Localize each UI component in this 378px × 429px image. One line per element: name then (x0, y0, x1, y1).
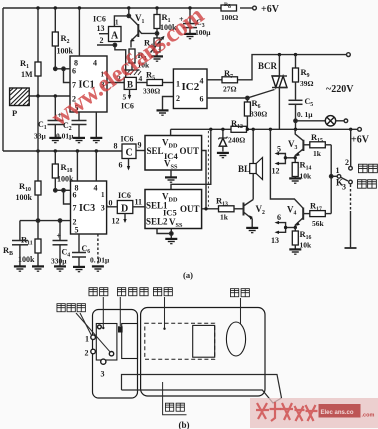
wire mid +6V rail (171, 128, 358, 130)
figure b handle (226, 322, 245, 356)
ground under R14 (289, 178, 301, 183)
label 锁舌 (153, 288, 172, 296)
svg-text:4: 4 (200, 77, 204, 86)
svg-text:C5: C5 (305, 97, 314, 108)
svg-text:240Ω: 240Ω (228, 136, 245, 145)
svg-text:+: + (57, 232, 62, 241)
svg-text:4: 4 (139, 74, 143, 83)
wire V3 emitter node row (285, 157, 295, 159)
wire contact2 riser (350, 129, 352, 166)
svg-text:6: 6 (119, 161, 123, 170)
svg-text:OUT: OUT (180, 204, 200, 214)
svg-text:100Ω: 100Ω (221, 13, 238, 22)
wire IC5 SEL2 bracket (157, 229, 171, 234)
svg-text:C: C (126, 148, 133, 159)
resistor R6 330Ω (244, 98, 267, 129)
svg-text:33μ: 33μ (34, 132, 47, 141)
svg-text:5: 5 (123, 93, 127, 102)
svg-text:10k: 10k (300, 172, 313, 181)
svg-text:1: 1 (115, 19, 119, 27)
zener diode VD (218, 129, 227, 151)
wire A pin2 elbow to gate B top (97, 45, 126, 77)
speaker BL (238, 129, 263, 199)
watermark diagonal www.elecfans.com (47, 2, 210, 132)
wire IC3 pin3 to D (107, 206, 118, 208)
svg-text:330Ω: 330Ω (143, 87, 160, 96)
svg-text:1k: 1k (313, 149, 322, 158)
svg-text:OUT: OUT (180, 146, 200, 156)
ground under IC5 (165, 239, 177, 244)
IC5 box (145, 190, 202, 230)
resistor R5 330Ω (136, 70, 173, 96)
svg-text:D: D (121, 204, 128, 215)
label 开关 (89, 288, 108, 296)
svg-text:V4: V4 (287, 205, 297, 217)
svg-text:(b): (b) (179, 420, 190, 429)
label 锁门 (358, 164, 377, 172)
svg-text:100k: 100k (57, 47, 74, 56)
ground under C2 (73, 138, 85, 143)
svg-text:R10: R10 (19, 181, 31, 193)
figure b lock body left (93, 310, 138, 399)
wire dashed IC3 stub (97, 234, 99, 266)
svg-text:(a): (a) (183, 270, 193, 280)
svg-text:IC6: IC6 (121, 135, 134, 144)
wire IC1 pin3 to gate B (107, 82, 124, 84)
leader 安装孔 to contact hole (76, 313, 110, 352)
svg-text:+6V: +6V (261, 4, 280, 15)
wire IC5 VSS ground (170, 229, 172, 239)
wire V4 pin bracket 6-13 (271, 213, 286, 245)
figure b mounting hole 1 (85, 335, 95, 344)
capacitor C1 33μ (34, 96, 64, 141)
inverter D of IC6 (105, 191, 143, 215)
svg-text:8: 8 (114, 142, 118, 151)
wire IC1 pin6 (55, 68, 70, 70)
svg-text:P: P (12, 108, 17, 118)
leader 动触头 (119, 297, 121, 326)
terminal ~220V top (326, 53, 354, 95)
svg-text:100k: 100k (16, 193, 33, 202)
wire VDD riser to IC5 (171, 129, 211, 189)
svg-text:0. 1μ: 0. 1μ (297, 110, 313, 119)
svg-text:9: 9 (138, 141, 142, 150)
ground under IC1 pin1 (90, 138, 102, 143)
potentiometer R4 (144, 36, 165, 56)
wire IC3 pin6-pin7 bracket (64, 190, 71, 204)
capacitor C6 0.01μ on IC3 pin5 (72, 234, 110, 266)
resistor R10 100k (16, 96, 42, 221)
wire C output to IC4 (136, 150, 145, 152)
svg-text:.com: .com (362, 413, 375, 419)
transistor V3 (288, 129, 310, 158)
svg-text:4: 4 (93, 59, 97, 68)
ground under dashed stub (92, 266, 104, 271)
wire BCR gate (247, 90, 274, 99)
svg-text:1k: 1k (220, 213, 229, 222)
ground under R11 (32, 266, 44, 271)
svg-text:1: 1 (336, 166, 340, 175)
svg-text:39Ω: 39Ω (300, 79, 314, 88)
svg-text:2: 2 (100, 36, 104, 45)
IC4 box (145, 136, 202, 171)
ground under C6 (73, 267, 85, 272)
resistor R1 1M (20, 8, 41, 96)
node V4 emitter junctions (284, 226, 297, 229)
switch contact 3 (336, 178, 352, 192)
svg-text:2: 2 (176, 94, 180, 103)
resistor R12 240Ω (228, 118, 247, 145)
svg-text:6: 6 (277, 213, 281, 222)
wire left edge column (2, 8, 4, 151)
ground under C1 (49, 138, 61, 143)
node IC5 OUT junctions (204, 207, 207, 210)
wire IC4 OUT down (202, 151, 206, 209)
svg-text:13: 13 (271, 236, 279, 245)
wire bolt linkage dashed (350, 185, 352, 212)
wire A pin13 stub (99, 33, 109, 35)
wire R7 to 220V line (238, 55, 347, 80)
svg-text:BL: BL (238, 164, 250, 174)
node A output junction (127, 14, 130, 17)
sensor P (10, 88, 30, 118)
wire V3 pin bracket 5-12 (272, 145, 286, 176)
figure b door bolt bar (122, 375, 282, 404)
node IC1 bracket junction (62, 67, 65, 70)
node lamp tap (294, 119, 297, 122)
transistor V4 (270, 129, 309, 227)
svg-text:13: 13 (97, 24, 105, 33)
svg-text:27Ω: 27Ω (223, 85, 237, 94)
node top rail junctions (36, 6, 191, 9)
node pin2 junction (36, 219, 39, 222)
IC1 box (70, 56, 107, 113)
wire IC2 pin2 to ground (163, 97, 174, 110)
leader 安装孔 to hole1 (80, 313, 92, 336)
ground under R4 (151, 56, 163, 61)
ground under R16 (289, 249, 301, 254)
wire IC4 VSS ground (170, 170, 172, 177)
ground under C3 (184, 34, 196, 39)
svg-text:RB: RB (3, 245, 13, 257)
inverter C of IC6 (114, 135, 142, 159)
leader 手柄 (240, 298, 242, 324)
svg-text:6: 6 (200, 95, 204, 104)
wire IC3 pin8 stub (76, 151, 78, 181)
resistor R9 39Ω (293, 55, 314, 100)
resonator RB (3, 221, 28, 266)
switch K pole (331, 175, 348, 181)
watermark red box (319, 404, 361, 418)
svg-text:5: 5 (75, 226, 79, 235)
node V3 emitter junctions (284, 156, 297, 159)
resistor R13 1k (202, 196, 243, 222)
svg-text:IC2: IC2 (182, 81, 200, 93)
svg-text:100k: 100k (57, 175, 74, 184)
capacitor C2 0.01μ on IC1 pin5 (56, 112, 87, 141)
wire V4 emitter node row (286, 227, 296, 229)
leader 开关 (102, 297, 104, 329)
figure b contact hole (109, 352, 113, 356)
svg-text:12: 12 (272, 167, 280, 176)
resistor R7 27Ω (207, 68, 238, 94)
svg-text:4: 4 (94, 184, 98, 193)
svg-text:R6: R6 (252, 98, 261, 110)
svg-text:0. 01μ: 0. 01μ (90, 256, 110, 265)
ground under zener (217, 153, 229, 158)
svg-text:1: 1 (176, 80, 180, 89)
wire A pin1 to rail (114, 8, 128, 27)
node pin6 junction (54, 67, 57, 70)
ground under V2 (246, 228, 258, 233)
IC2 box (173, 69, 207, 109)
label 手柄 (230, 289, 249, 297)
svg-text:1: 1 (101, 191, 105, 199)
svg-text:0.01μ: 0.01μ (56, 132, 74, 141)
ground under IC4 (165, 177, 177, 182)
node IC3 pin6 junction (54, 189, 57, 192)
terminal +6V right (351, 127, 370, 145)
wire IC3 pin4 stub (95, 151, 97, 181)
wire B pin5 stub (121, 89, 134, 110)
figure b bolt inner (193, 325, 215, 357)
wire dashed riser (207, 131, 209, 207)
transistor V2 (244, 200, 266, 228)
watermark band bottom (250, 398, 378, 428)
svg-text:11: 11 (135, 198, 143, 207)
svg-text:~220V: ~220V (326, 84, 354, 95)
label 安装孔 (57, 304, 85, 312)
svg-text:C6: C6 (82, 244, 91, 255)
svg-text:6: 6 (72, 67, 76, 76)
node C4 tap (58, 219, 61, 222)
svg-text:6: 6 (73, 191, 77, 200)
figure b mounting hole 3 (101, 359, 106, 378)
resistor R19 100k collector load (154, 8, 177, 38)
wire D pin12 stub (112, 214, 127, 226)
resistor R8 100Ω (221, 2, 238, 22)
figure b mounting hole 2 (85, 349, 96, 358)
svg-text:+6V: +6V (351, 135, 370, 146)
resistor R15 1k (310, 132, 331, 158)
resistor R3 10k (129, 49, 150, 70)
svg-text:Elec ans.co: Elec ans.co (321, 410, 354, 416)
resistor R14 10k (292, 158, 312, 181)
terminal +6V top (253, 4, 280, 15)
svg-text:3: 3 (342, 183, 346, 192)
node A pin2 junction (113, 43, 116, 46)
svg-text:IC6: IC6 (93, 15, 106, 24)
wire IC2 pin6 (207, 97, 247, 99)
svg-text:R18: R18 (61, 162, 73, 174)
capacitor C4 330μ (51, 221, 70, 266)
wire IC1 pin1 ground stub (95, 112, 97, 137)
svg-text:A: A (111, 31, 119, 42)
figure b switch block (96, 324, 117, 361)
transistor V1 (129, 13, 157, 48)
svg-text:R16: R16 (300, 229, 312, 241)
inverter B of IC6 (117, 74, 143, 90)
switch contact 2 (345, 158, 352, 170)
svg-text:R2: R2 (61, 33, 70, 45)
label 门栓 (165, 403, 184, 411)
figure b switch pivot hole (98, 325, 102, 329)
watermark 电子发烧友 (256, 402, 318, 421)
node IC3 bracket junction (62, 189, 65, 192)
svg-text:V2: V2 (256, 204, 266, 216)
wire D to IC5 SEL1 (133, 206, 145, 208)
wire top +6V rail (3, 7, 253, 9)
resistor R18 100k (52, 151, 74, 190)
svg-text:3: 3 (101, 204, 105, 213)
wire C pin6 stub (119, 159, 131, 171)
svg-text:R13: R13 (216, 196, 228, 208)
wire IC3 pin2 (20, 220, 71, 222)
svg-text:330Ω: 330Ω (250, 110, 267, 119)
figure b bolt guide dashed (145, 323, 215, 359)
wire IC1 pin8 to rail (78, 8, 80, 56)
figure b moving contact (118, 326, 123, 332)
svg-text:1M: 1M (21, 70, 33, 79)
svg-text:R14: R14 (300, 160, 312, 172)
resistor R16 10k (292, 228, 312, 250)
node long line junctions (36, 149, 98, 152)
wire R15 R17 link (330, 145, 332, 214)
svg-text:C1: C1 (38, 120, 47, 131)
svg-text:12: 12 (112, 217, 120, 226)
svg-text:IC6: IC6 (121, 102, 134, 111)
svg-text:IC6: IC6 (118, 191, 131, 200)
svg-text:330μ: 330μ (51, 257, 67, 266)
ground under RB (14, 266, 26, 271)
node mid rail junctions (209, 128, 352, 131)
node IC5 vss junction (170, 232, 173, 235)
svg-text:R1: R1 (20, 58, 29, 70)
inverter A of IC6 (93, 15, 121, 46)
svg-text:SEL: SEL (147, 146, 164, 156)
wire IC4 VDD to rail (170, 129, 172, 135)
node V1 collector junction (155, 32, 158, 35)
label 开门 (357, 180, 376, 188)
svg-text:10k: 10k (300, 241, 313, 250)
resistor R11 100k (18, 221, 41, 266)
triac BCR (258, 55, 287, 130)
svg-text:2: 2 (85, 349, 89, 358)
node R6 top junction (246, 96, 249, 99)
capacitor C3 100μ (179, 8, 211, 37)
label 动触头 (117, 288, 148, 296)
svg-text:V3: V3 (288, 139, 298, 151)
svg-text:BCR: BCR (258, 61, 278, 71)
svg-text:R9: R9 (301, 67, 310, 79)
svg-text:3: 3 (101, 370, 105, 379)
node switch pole junction (330, 175, 333, 178)
wire bolt linkage solid (345, 211, 357, 248)
svg-text:5: 5 (277, 145, 281, 154)
resistor R17 56k (310, 201, 331, 229)
svg-text:SEL2: SEL2 (146, 217, 168, 227)
ground hatched under R3 (124, 70, 141, 75)
figure b contact block (122, 324, 138, 359)
wire long line to gate C pin8 (3, 150, 122, 152)
svg-text:IC3: IC3 (79, 203, 95, 214)
svg-text:7: 7 (73, 204, 77, 213)
IC3 box (71, 181, 107, 235)
figure b lock body main (141, 308, 265, 397)
leader 门栓 (163, 382, 187, 415)
wire IC1 pin6-pin7 bracket (64, 69, 71, 83)
wire IC3 pin6 (55, 189, 70, 191)
svg-text:56k: 56k (312, 219, 325, 228)
svg-text:2: 2 (345, 158, 349, 167)
node P row junctions (36, 94, 57, 97)
capacitor C5 0.1μ (289, 97, 314, 129)
leader 锁舌 (163, 297, 165, 330)
ground under IC2 pin2 (157, 110, 169, 115)
ground under C4 (54, 266, 66, 271)
svg-text:1: 1 (85, 335, 89, 344)
lamp (296, 116, 348, 126)
wire P to IC1 pin2 (29, 95, 70, 97)
resistor R2 100k (52, 8, 73, 69)
node 220V line junctions (278, 53, 298, 56)
